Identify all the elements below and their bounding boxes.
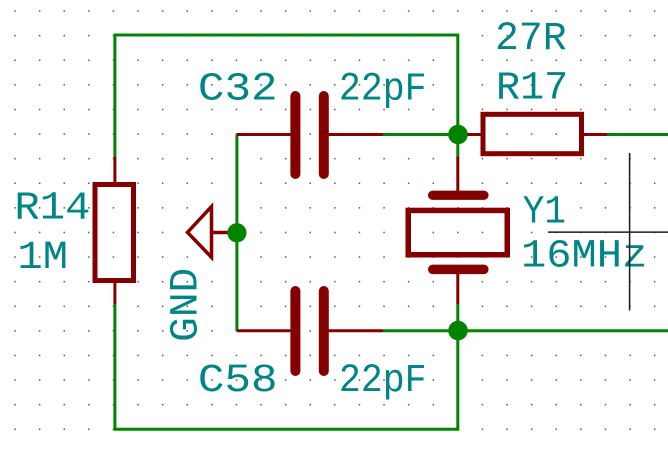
svg-text:16MHz: 16MHz [521, 234, 647, 279]
cursor crosshair vertical line [629, 153, 631, 311]
svg-text:22pF: 22pF [339, 66, 427, 112]
svg-text:1M: 1M [17, 236, 68, 281]
svg-text:C58: C58 [198, 358, 278, 404]
svg-text:27R: 27R [495, 16, 567, 61]
resistor R14 pin 2 (bottom) [113, 282, 116, 304]
capacitor C32 left plate [290, 91, 300, 179]
crystal Y1 pin 1 (top) [456, 157, 459, 192]
resistor R17 body [483, 114, 582, 153]
svg-text:Y1: Y1 [523, 190, 566, 235]
svg-text:22pF: 22pF [339, 357, 427, 403]
junction node B (bottom, at C58/Y1) [448, 321, 468, 341]
capacitor C32 pin 1 (left) [237, 133, 291, 136]
capacitor C32 pin 2 (right) [329, 133, 384, 136]
resistor R14 body [95, 185, 134, 281]
capacitor C58 pin 1 (left) [237, 329, 291, 332]
wire: junction B to right edge [458, 329, 668, 332]
svg-text:R14: R14 [14, 186, 90, 231]
svg-text:GND: GND [164, 268, 209, 342]
wire: C32 right pin end to junction A [383, 133, 458, 136]
svg-text:R17: R17 [496, 66, 568, 111]
capacitor C58 right plate [319, 286, 329, 376]
capacitor C58 pin 2 (right) [329, 329, 384, 332]
crystal Y1 body [408, 210, 507, 254]
junction node A (top, at R17/C32/Y1) [448, 125, 468, 145]
wire: C58 right pin end to junction B [383, 329, 458, 332]
crystal Y1 pin 2 (bottom) [456, 274, 459, 304]
resistor R17 pin 1 (left) [458, 133, 481, 136]
junction node GND dot [227, 223, 246, 242]
capacitor C32 right plate [319, 91, 329, 179]
crystal Y1 top electrode plate [428, 191, 489, 200]
resistor R14 pin 1 (top) [113, 157, 116, 184]
cursor crosshair horizontal line [548, 231, 668, 233]
ground symbol GND (open triangle) [188, 207, 237, 258]
resistor R17 pin 2 (right) [584, 133, 607, 136]
wire: GND vertical bus from C32 left pin corner down to C58 left pin corner [235, 135, 238, 331]
wire: R17 right pin end to right edge [607, 133, 668, 136]
wire: bottom loop (R14 bottom down, across, up to junction B) [115, 304, 458, 429]
wire: left/top/right loop (R14 top to top rail to junction A) [115, 35, 458, 157]
crystal Y1 bottom electrode plate [428, 265, 489, 275]
capacitor C58 left plate [290, 286, 300, 376]
svg-text:C32: C32 [198, 66, 278, 112]
